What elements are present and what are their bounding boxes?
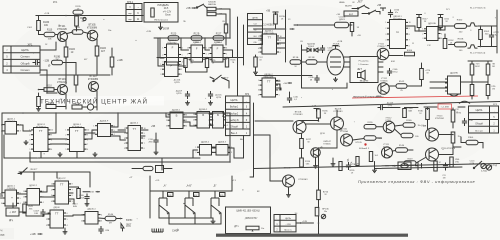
wire xyxy=(413,63,422,86)
transistor VT102 xyxy=(87,24,98,41)
svg-text:R2Б: R2Б xyxy=(75,104,80,106)
svg-text:R14Б: R14Б xyxy=(108,214,114,216)
watermark band xyxy=(38,96,164,106)
svg-text:10: 10 xyxy=(409,22,411,24)
svg-text:ХРЗ.1: ХРЗ.1 xyxy=(127,2,134,4)
svg-text:R12Б: R12Б xyxy=(48,103,54,105)
label scatter xyxy=(27,9,450,193)
svg-text:1: 1 xyxy=(208,114,209,116)
wire xyxy=(111,131,126,133)
svg-text:3: 3 xyxy=(1,203,2,205)
svg-text:С14Б: С14Б xyxy=(468,120,473,122)
speaker box BA1 xyxy=(350,57,378,83)
svg-text:−12В: −12В xyxy=(285,224,291,226)
svg-text:R1ЗБ: R1ЗБ xyxy=(367,122,373,124)
svg-text:Вне чуб: Вне чуб xyxy=(475,130,483,132)
wire xyxy=(386,107,401,109)
wire top of block xyxy=(19,171,90,187)
svg-text:Общий: Общий xyxy=(21,61,30,65)
transistor VT110 xyxy=(340,129,352,147)
transistor VT208 xyxy=(331,109,344,131)
capacitor C124 xyxy=(442,163,448,180)
pot wiper symbol xyxy=(321,214,325,218)
label VD201 xyxy=(307,43,315,49)
label +UF xyxy=(155,179,236,182)
svg-text:0,Л/2Д: 0,Л/2Д xyxy=(481,171,487,173)
svg-text:ДД10Б.З: ДД10Б.З xyxy=(218,142,227,144)
svg-text:R1ЗБ: R1ЗБ xyxy=(293,57,299,59)
wire xyxy=(302,45,348,88)
svg-text:ТТ: ТТ xyxy=(133,127,137,131)
wire top bus xyxy=(2,112,230,114)
svg-text:+5В: +5В xyxy=(90,192,94,194)
svg-text:2: 2 xyxy=(166,120,167,122)
wire xyxy=(231,176,233,191)
svg-text:Яркость: Яркость xyxy=(284,230,292,232)
capacitor C146b xyxy=(462,118,474,126)
svg-text:ДД107.Р: ДД107.Р xyxy=(57,178,66,180)
transistor VT112 xyxy=(383,118,395,133)
capacitor C109 xyxy=(98,226,109,234)
svg-text:−12В: −12В xyxy=(384,166,390,168)
svg-text:6: 6 xyxy=(51,149,52,151)
svg-text:2: 2 xyxy=(46,219,47,221)
wire xyxy=(40,42,56,50)
wire xyxy=(270,172,283,181)
wire JET pins xyxy=(378,62,383,72)
svg-text:(47к): (47к) xyxy=(388,105,393,107)
svg-text:4: 4 xyxy=(227,125,228,127)
svg-text:4: 4 xyxy=(182,61,183,63)
svg-text:ЦЛ7Б: ЦЛ7Б xyxy=(176,93,182,95)
svg-text:6: 6 xyxy=(206,48,207,50)
wire xyxy=(439,134,454,155)
transistor VT115 xyxy=(426,148,456,161)
svg-text:←: ← xyxy=(276,218,278,220)
wire xyxy=(159,212,213,218)
resistor R147r xyxy=(401,133,419,138)
gnd xyxy=(211,218,216,224)
resistor R144r xyxy=(396,145,408,152)
IC DD207 xyxy=(258,74,280,97)
svg-text:ЮЛ: ЮЛ xyxy=(1,234,5,237)
svg-text:6: 6 xyxy=(279,90,280,92)
svg-text:JЕТ: JЕТ xyxy=(357,67,362,71)
svg-text:2: 2 xyxy=(1,131,2,133)
svg-text:Приложение справочник : ФВЧ -: Приложение справочник : ФВЧ - информиров… xyxy=(358,179,475,184)
resistor R130 xyxy=(184,59,195,68)
svg-text:ЧВ0Б: ЧВ0Б xyxy=(339,2,345,4)
svg-text:СЛ9610Б: СЛ9610Б xyxy=(7,188,16,190)
svg-text:2: 2 xyxy=(124,133,125,135)
switch S-MV xyxy=(213,75,229,82)
resistor R142 xyxy=(300,158,311,167)
svg-text:б: б xyxy=(347,159,349,163)
svg-text:70к: 70к xyxy=(418,125,421,127)
wire left vertical xyxy=(1,113,3,170)
svg-text:ЮЛЮ: ЮЛЮ xyxy=(126,219,133,222)
label Ch1 xyxy=(416,104,428,106)
wire DD207 pins xyxy=(276,81,282,90)
svg-text:R14Б: R14Б xyxy=(406,120,412,122)
svg-text:R12З: R12З xyxy=(171,34,177,36)
circle sym xyxy=(486,165,491,170)
resistor R-br xyxy=(434,161,442,171)
svg-text:R1ББ: R1ББ xyxy=(458,39,464,41)
label C124 xyxy=(470,161,476,165)
gnd xyxy=(253,70,258,75)
wire base bus xyxy=(255,120,293,122)
svg-text:„А": „А" xyxy=(163,185,167,188)
wire xyxy=(65,57,67,63)
resistor R154 xyxy=(451,132,461,143)
svg-text:Ч: Ч xyxy=(1,229,3,233)
mixer tube VT205 xyxy=(327,44,344,76)
svg-text:4: 4 xyxy=(124,143,125,145)
svg-text:Общий: Общий xyxy=(230,126,238,129)
gate DD201.2 xyxy=(187,42,207,62)
svg-text:КТ310: КТ310 xyxy=(383,146,390,148)
svg-text:ДД108: ДД108 xyxy=(53,207,60,209)
wire collector bus xyxy=(36,15,143,17)
svg-text:Чв1.б/в.ЛТ: Чв1.б/в.ЛТ xyxy=(416,104,428,106)
resistor R140 xyxy=(317,109,329,118)
frame bottom xyxy=(254,164,500,169)
svg-text:1: 1 xyxy=(93,126,94,128)
svg-text:8: 8 xyxy=(409,34,410,36)
wire xyxy=(12,203,14,208)
label DD labels xyxy=(174,80,181,85)
wire xyxy=(256,75,313,77)
svg-text:5: 5 xyxy=(65,149,66,151)
resistor R-frame xyxy=(339,162,342,171)
svg-text:2: 2 xyxy=(51,189,52,191)
wire xyxy=(430,82,448,88)
resistor R151 xyxy=(439,18,450,28)
svg-text:−12В: −12В xyxy=(338,130,344,132)
wire xyxy=(111,112,119,127)
wire xyxy=(166,113,170,117)
svg-text:2: 2 xyxy=(258,85,259,87)
resistor R156 xyxy=(470,64,480,76)
svg-text:ДД10Б.Р: ДД10Б.Р xyxy=(100,121,109,123)
resistor R135 xyxy=(266,11,285,30)
transistor VT114 xyxy=(426,116,445,142)
svg-text:9: 9 xyxy=(87,135,88,137)
label K1.2 xyxy=(262,25,294,31)
svg-text:2: 2 xyxy=(212,152,213,154)
wire xyxy=(318,216,320,234)
svg-text:6: 6 xyxy=(87,149,88,151)
transistor VT111 xyxy=(377,44,389,60)
svg-text:бг: бг xyxy=(216,79,218,81)
svg-text:ЦЕПЬ: ЦЕПЬ xyxy=(476,109,483,112)
vertical wire xyxy=(285,10,287,62)
svg-text:КТ361ВЗ: КТ361ВЗ xyxy=(294,114,304,116)
svg-text:ЗОЛЯ: ЗОЛЯ xyxy=(163,29,170,31)
svg-text:5: 5 xyxy=(227,120,228,122)
svg-text:1: 1 xyxy=(65,130,66,132)
wire block frame xyxy=(150,176,232,218)
svg-text:ДД20Б.2: ДД20Б.2 xyxy=(193,42,202,44)
svg-text:2: 2 xyxy=(162,54,163,56)
svg-text:КЛ1.2Б: КЛ1.2Б xyxy=(356,142,363,144)
label A xyxy=(163,185,172,198)
svg-text:КТ361Б: КТ361Б xyxy=(377,46,385,48)
red box +1.65V xyxy=(438,104,452,109)
connector XP3.1 table xyxy=(126,2,142,22)
wire xyxy=(406,26,427,32)
svg-text:R110: R110 xyxy=(46,85,52,88)
IC DD108 xyxy=(46,207,68,228)
svg-text:Общий: Общий xyxy=(475,123,483,126)
svg-text:ЮМ: ЮМ xyxy=(391,61,395,63)
svg-text:ДД102.2: ДД102.2 xyxy=(29,185,38,187)
svg-text:ДД104.2: ДД104.2 xyxy=(130,123,139,125)
capacitor C215 xyxy=(320,45,333,53)
svg-text:Б: Б xyxy=(176,114,178,118)
wire xyxy=(30,152,77,163)
gate DD106.1 xyxy=(166,110,187,129)
svg-text:КТ361: КТ361 xyxy=(386,120,393,122)
resistor R152 xyxy=(443,34,454,49)
svg-text:МВБ24ИЕ: МВБ24ИЕ xyxy=(264,33,274,35)
svg-text:ДД10ЗБ: ДД10ЗБ xyxy=(428,23,436,25)
svg-text:ДФ6З: ДФ6З xyxy=(339,18,345,21)
wire xyxy=(383,49,403,56)
wire xyxy=(226,95,238,97)
svg-text:1: 1 xyxy=(258,80,259,82)
label DP212 xyxy=(215,95,222,99)
svg-text:К561ЛА7: К561ЛА7 xyxy=(393,18,402,21)
small box br xyxy=(398,162,411,170)
wire xyxy=(162,113,230,170)
svg-text:ВКЛ: ВКЛ xyxy=(349,14,354,16)
svg-text:3: 3 xyxy=(160,74,161,76)
label CHFR xyxy=(172,230,180,233)
wire xyxy=(313,158,318,169)
IC DD107 xyxy=(51,178,73,204)
arc tilde xyxy=(459,101,470,103)
svg-text:ЦЛ1Л: ЦЛ1Л xyxy=(79,197,85,199)
svg-text:4: 4 xyxy=(186,126,187,128)
label VL1D xyxy=(491,165,498,167)
transistor VS2 phase A-B xyxy=(185,191,199,215)
svg-text:МОЛ: МОЛ xyxy=(475,66,480,68)
svg-text:2: 2 xyxy=(23,197,24,199)
resistor R148v xyxy=(420,69,431,80)
resistor R135o xyxy=(364,122,376,129)
wire xyxy=(66,39,97,47)
wire xyxy=(376,12,380,15)
IC DD206 dip xyxy=(258,31,282,55)
svg-text:9: 9 xyxy=(144,133,145,135)
resistor RV1Bb xyxy=(350,157,360,175)
resistor R145 xyxy=(105,214,116,225)
svg-text:→: → xyxy=(493,110,495,112)
svg-text:1: 1 xyxy=(422,29,423,31)
svg-text:+5В: +5В xyxy=(283,83,287,85)
filter ZQ1 xyxy=(335,17,349,28)
capacitor C207 xyxy=(185,91,213,99)
svg-text:ДД10Б.4: ДД10Б.4 xyxy=(88,209,97,211)
svg-text:2: 2 xyxy=(422,33,423,35)
resistor R111 xyxy=(37,92,48,106)
IC DD101.1 xyxy=(1,119,21,135)
red label mkf xyxy=(376,96,382,98)
IC DD102.2 xyxy=(23,185,44,205)
IC DD104b xyxy=(124,123,146,151)
svg-text:0,1М: 0,1М xyxy=(470,163,475,165)
svg-text:К176ИЕ1З: К176ИЕ1З xyxy=(72,127,83,129)
diode VD1 pair xyxy=(307,48,318,52)
svg-text:R110: R110 xyxy=(47,30,53,32)
transistor VT206 xyxy=(293,112,306,134)
svg-text:+12В: +12В xyxy=(30,233,36,236)
bottom dark bar xyxy=(216,234,408,237)
wire xyxy=(64,215,85,216)
svg-text:К561ЛЕБ: К561ЛЕБ xyxy=(7,121,16,123)
wire xyxy=(160,38,164,58)
wire xyxy=(132,168,172,170)
wire xyxy=(424,106,465,108)
wire xyxy=(438,26,445,31)
svg-text:К1.2-УТ2021.З): К1.2-УТ2021.З) xyxy=(470,8,486,10)
wire xyxy=(418,28,420,32)
resistor R157 xyxy=(486,64,496,76)
resistor R113 xyxy=(72,27,83,34)
capacitor C110b xyxy=(33,209,45,217)
capacitor C124r xyxy=(489,26,499,47)
svg-text:ЛЮГ: ЛЮГ xyxy=(126,224,132,227)
svg-text:4: 4 xyxy=(67,225,68,227)
svg-text:3: 3 xyxy=(65,139,66,141)
label A-B xyxy=(186,185,198,198)
svg-text:1: 1 xyxy=(193,114,194,116)
svg-text:Б: Б xyxy=(202,113,204,117)
svg-text:6: 6 xyxy=(409,45,410,47)
svg-text:3: 3 xyxy=(208,125,209,127)
power module A1 box xyxy=(144,3,178,23)
IC DD102.1 xyxy=(1,186,21,207)
svg-text:F: F xyxy=(172,46,174,50)
svg-text:ЯЛ7Б: ЯЛ7Б xyxy=(456,113,462,115)
wire xyxy=(301,149,303,159)
svg-text:КТ3008М: КТ3008М xyxy=(88,78,98,81)
svg-text:R149: R149 xyxy=(408,158,414,160)
italic caption xyxy=(358,179,475,184)
svg-text:6: 6 xyxy=(226,48,227,50)
resistor R129b xyxy=(225,58,236,67)
resistor R150 xyxy=(438,20,467,34)
resistor R141 xyxy=(300,134,312,149)
capacitor C107 xyxy=(79,194,90,207)
svg-text:5: 5 xyxy=(20,198,21,200)
svg-text:ХР2: ХР2 xyxy=(245,94,250,96)
label 600mkf xyxy=(359,147,370,150)
brace xyxy=(222,112,224,118)
wire xyxy=(255,55,257,70)
resistor R126 xyxy=(72,104,82,110)
wire xyxy=(63,62,77,64)
wire xyxy=(302,49,325,51)
svg-text:6: 6 xyxy=(280,52,281,54)
svg-text:К1.2-К0Б01: К1.2-К0Б01 xyxy=(262,25,275,27)
svg-text:→: → xyxy=(245,99,247,102)
wire xyxy=(178,58,227,67)
svg-text:3: 3 xyxy=(231,152,232,154)
capacitor C211 xyxy=(308,75,319,83)
wire xyxy=(210,117,226,124)
small box VKL xyxy=(336,11,358,16)
svg-text:Выбор1: Выбор1 xyxy=(230,107,239,109)
svg-text:5: 5 xyxy=(385,45,386,47)
gnd xyxy=(286,187,291,197)
resistor R125b xyxy=(191,34,202,45)
transistor VS1 phase A xyxy=(159,191,173,215)
svg-text:4: 4 xyxy=(385,40,386,42)
resistor R147 xyxy=(417,18,428,28)
svg-text:+12В: +12В xyxy=(311,106,317,108)
wire xyxy=(40,196,56,198)
IC DD109.1 xyxy=(385,16,410,49)
ground on frame xyxy=(331,158,336,166)
capacitor C211b xyxy=(287,92,299,103)
svg-text:2: 2 xyxy=(187,53,188,55)
wire DD206 pins xyxy=(277,38,286,48)
transistor VS3 phase B xyxy=(211,191,225,215)
wire xyxy=(453,137,466,147)
resistor R121 in module xyxy=(151,8,154,17)
resistor R- top xyxy=(143,166,164,173)
svg-text:1М: 1М xyxy=(492,88,495,90)
connector X4 table xyxy=(274,213,298,232)
svg-text:10к: 10к xyxy=(324,211,327,213)
svg-text:3: 3 xyxy=(46,225,47,227)
wire xyxy=(38,31,40,35)
svg-text:1М: 1М xyxy=(443,177,446,179)
wire xyxy=(478,25,497,47)
wire bus xyxy=(40,74,110,76)
resistor R152c xyxy=(451,108,462,128)
wire xyxy=(180,37,188,50)
svg-text:5: 5 xyxy=(29,149,30,151)
svg-text:4: 4 xyxy=(441,38,442,40)
transistor VT207 xyxy=(311,141,332,157)
svg-text:4: 4 xyxy=(43,202,44,204)
wire +12V to pot chain xyxy=(296,221,314,224)
svg-text:ДД10Б.2: ДД10Б.2 xyxy=(199,109,208,111)
svg-text:УМОДЕЛЬ: УМОДЕЛЬ xyxy=(157,4,169,7)
svg-text:ТТ: ТТ xyxy=(55,212,59,216)
svg-text:6: 6 xyxy=(182,47,183,49)
wire xyxy=(276,84,281,90)
svg-text:Сигнал: Сигнал xyxy=(21,55,30,59)
svg-text:≈+1.6ЗВ: ≈+1.6ЗВ xyxy=(441,106,449,109)
label -12V xyxy=(43,59,51,68)
svg-text:R1Б0: R1Б0 xyxy=(457,20,463,22)
potentiometer in box xyxy=(246,226,264,231)
frame left xyxy=(250,103,254,177)
IC DD109.3 xyxy=(445,73,461,97)
label K1.2-VT 1 xyxy=(470,8,486,10)
wire xyxy=(183,117,197,126)
svg-text:≡Ч−12V: ≡Ч−12V xyxy=(163,11,172,14)
svg-text:КУ1: КУ1 xyxy=(53,1,58,4)
svg-text:2: 2 xyxy=(258,40,259,42)
resistor R125 xyxy=(46,103,56,109)
svg-text:Выбор Б: Выбор Б xyxy=(229,120,239,122)
